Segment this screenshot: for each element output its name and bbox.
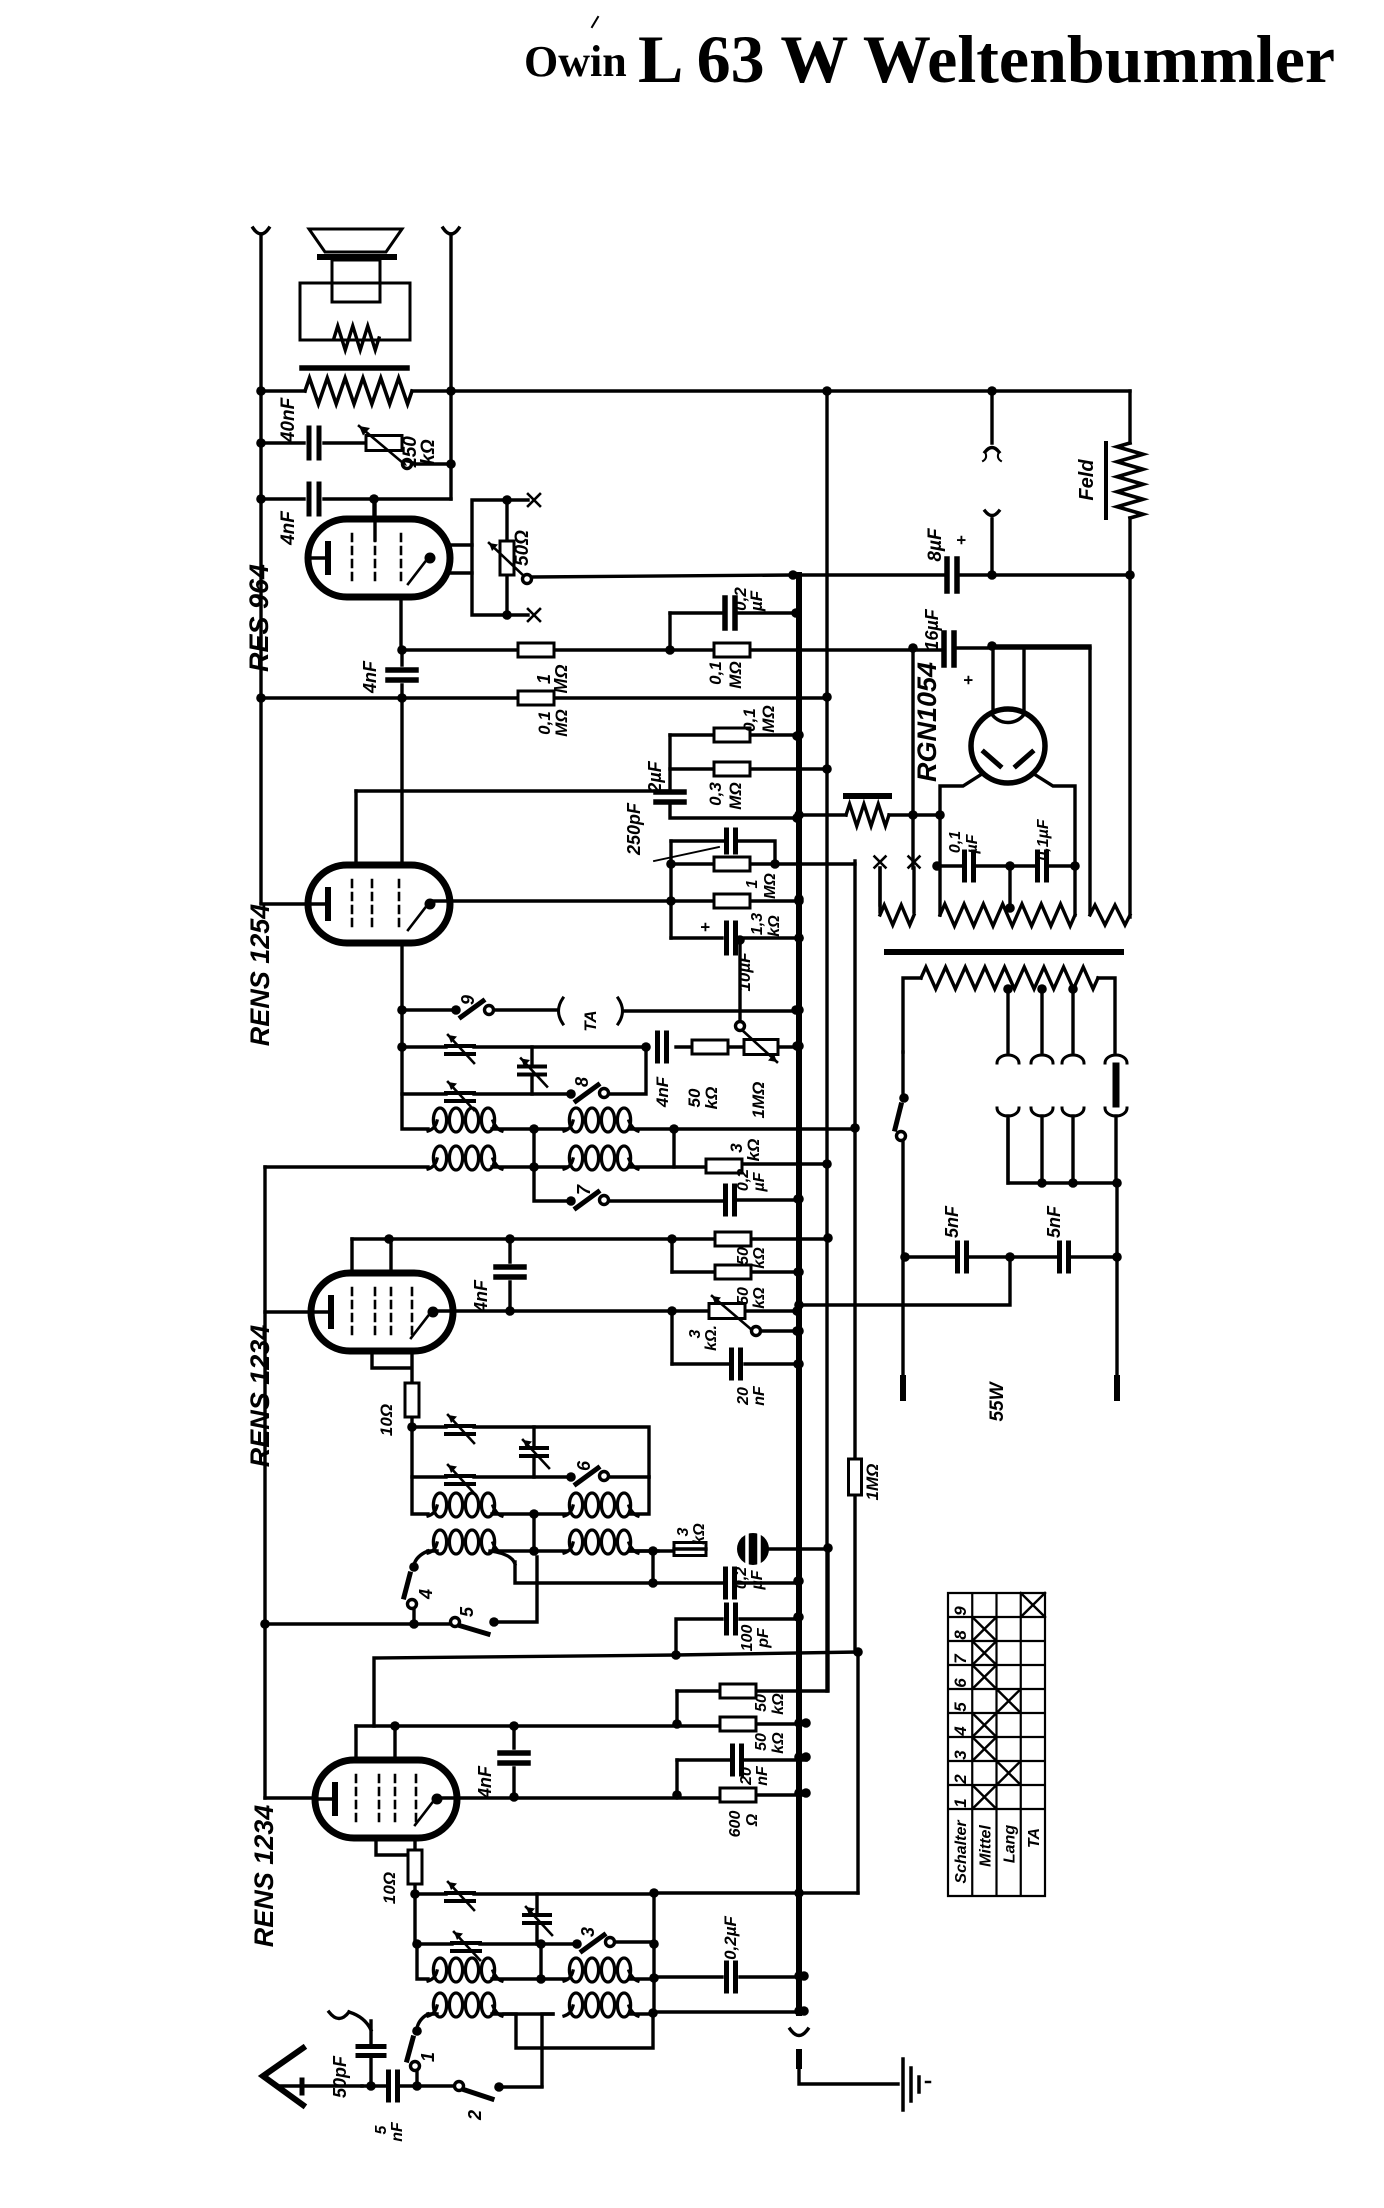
svg-text:5nF: 5nF (942, 1205, 962, 1238)
bracket x670 with 2uF (670, 735, 797, 818)
HV winding lead left with x (878, 868, 881, 912)
tube RENS1234a cathode (315, 1797, 332, 1800)
svg-text:Schalter: Schalter (953, 1820, 970, 1884)
svg-text:0,2: 0,2 (733, 1567, 750, 1589)
switch 5 (451, 1618, 460, 1627)
trimmer stage1 row1 (446, 1893, 474, 1901)
capacitor 0,2uF IF (726, 1186, 735, 1214)
primary winding left small lead (878, 868, 881, 905)
bracket rowA-rowB x674 (672, 1129, 675, 1167)
coil L3b (428, 1543, 437, 1553)
capacitor 250pF (671, 841, 775, 864)
rectifier RGN1054 filament (991, 713, 1025, 722)
svg-text:7: 7 (574, 1184, 594, 1195)
coil L5a (428, 1971, 437, 1981)
svg-text:3: 3 (675, 1527, 692, 1536)
coil L5b (428, 2006, 437, 2016)
resistor 50 kOhm det (692, 1040, 728, 1054)
link coil1b to y2048 (504, 2013, 653, 2048)
tube RENS1254 envelope (308, 865, 450, 943)
padder stage3 (532, 1427, 535, 1477)
svg-text:kΩ: kΩ (691, 1523, 708, 1545)
svg-text:Mittel: Mittel (977, 1825, 994, 1867)
svg-text:3: 3 (687, 1329, 704, 1338)
wire heater bottom y1183 (1008, 1120, 1117, 1257)
svg-text:3: 3 (578, 1927, 598, 1937)
tube RENS1234a anode (432, 1794, 443, 1805)
svg-text:+: + (952, 535, 971, 545)
capacitor 50pF (369, 2021, 372, 2086)
wire coil rowB y1551 (428, 1549, 674, 1552)
svg-text:MΩ: MΩ (762, 873, 779, 899)
capacitor 4nF stage1 (512, 1726, 515, 1797)
resistor 0,1 MOhm (AF grid) (518, 691, 554, 705)
speaker diaphragm bar (320, 254, 394, 260)
svg-text:0,1: 0,1 (740, 708, 759, 732)
trimmer row2 stage2 (446, 1046, 474, 1054)
svg-text:50: 50 (735, 1247, 752, 1265)
svg-text:kΩ: kΩ (751, 1247, 768, 1269)
svg-text:50Ω: 50Ω (512, 530, 533, 566)
switch 1 (417, 2014, 428, 2028)
bracket x677 50k stage1 (675, 1691, 678, 1724)
svg-text:2: 2 (465, 2110, 485, 2121)
capacitor 5nF (362, 2084, 417, 2087)
switch 3 (572, 1939, 582, 1949)
potentiometer 3 kOhm var (709, 1304, 745, 1319)
svg-text:10Ω: 10Ω (377, 1404, 396, 1436)
mains lead left (901, 1052, 904, 1098)
svg-text:TA: TA (1026, 1828, 1043, 1848)
wire 50k row y1691 (677, 1548, 828, 1691)
svg-text:0,2: 0,2 (735, 1169, 752, 1191)
resistor 1 MOhm AVC (849, 1459, 862, 1495)
tube RENS1254 anode (425, 899, 436, 910)
coil L6b (564, 2006, 573, 2016)
oscillator row2 y1094 stage2 (402, 1047, 646, 1094)
svg-text:kΩ: kΩ (766, 915, 783, 937)
tube RENS1234a cathode lead (265, 1796, 315, 1799)
tube RENS1234b bottom leads (372, 1352, 412, 1384)
svg-text:kΩ: kΩ (744, 1139, 763, 1162)
coil L4a (564, 1506, 573, 1516)
svg-text:kΩ: kΩ (702, 1087, 721, 1110)
wire left vertical x265 (263, 1167, 266, 1798)
output choke winding (305, 378, 412, 404)
wire band row y1624 (265, 1622, 450, 1625)
wire coil rowA y1514 (412, 1477, 649, 1514)
coil L3a (428, 1506, 437, 1516)
tube RES964 anode (425, 553, 436, 564)
tube RES964 envelope (308, 519, 450, 597)
resistor 1,3 kOhm (714, 894, 750, 908)
capacitor 5nF a (958, 1243, 967, 1271)
svg-text:50: 50 (753, 1733, 770, 1751)
tube RENS1254 aux top lead (400, 698, 403, 865)
wire coil rowB y2014 (428, 2012, 653, 2015)
wire AVC y1655 (374, 1652, 858, 1726)
switch table frame (948, 1593, 1045, 1896)
svg-text:+: + (959, 675, 978, 685)
wire screen feed y791 (356, 789, 670, 792)
wire 1M/0,1M/16uF row y649 (402, 648, 1090, 650)
antenna symbol (263, 2048, 303, 2105)
heater connectors (997, 1055, 1019, 1063)
svg-text:2µF: 2µF (645, 760, 665, 793)
rectifier RGN1054 anode legs (940, 774, 982, 866)
wire row y2012 to bus (653, 2010, 804, 2013)
svg-text:50: 50 (753, 1694, 770, 1712)
svg-text:4nF: 4nF (471, 1279, 491, 1313)
speaker voice coil (332, 260, 380, 302)
tube RENS1234b grids (352, 1288, 412, 1336)
switch 7 row y1201 (534, 1167, 798, 1201)
tube RENS1234a grid leads top (356, 1726, 395, 1760)
HT vertical x827 (825, 391, 828, 1691)
svg-text:RES 964: RES 964 (244, 564, 274, 672)
wire 20nF row y1364 (672, 1362, 798, 1365)
wire rowB right links (630, 1551, 658, 1583)
wire 0,2uF row y1583 (490, 1551, 798, 1583)
vertical x654 (652, 1894, 655, 2013)
capacitor 100pF (727, 1605, 736, 1633)
resistor 50 kOhm c (720, 1684, 756, 1698)
svg-text:0,1µF: 0,1µF (1035, 818, 1052, 860)
resistor 1 MOhm (518, 643, 554, 657)
wire 1M row y864 (671, 862, 855, 865)
capacitor 5nF b (1060, 1243, 1069, 1271)
svg-text:4nF: 4nF (653, 1076, 672, 1108)
svg-text:µF: µF (751, 1171, 768, 1192)
bracket x672 20nF (670, 1311, 673, 1364)
wire y1305 (799, 1257, 1010, 1305)
wire grid row y1239 (352, 1237, 828, 1240)
svg-text:TA: TA (581, 1010, 600, 1031)
capacitor 16uF (944, 633, 954, 665)
tube RES964 anode stubs (448, 545, 472, 573)
wire anode row y1311 (433, 1309, 797, 1312)
svg-text:1: 1 (418, 2052, 438, 2062)
transformer primary winding left small (880, 905, 914, 925)
svg-text:20: 20 (738, 1767, 755, 1786)
svg-text:MΩ: MΩ (552, 709, 571, 736)
capacitor 8uF (947, 559, 957, 591)
rectifier RGN1054 anodes (984, 752, 1032, 766)
capacitor 10uF (671, 936, 799, 939)
svg-text:1,3: 1,3 (749, 913, 766, 935)
svg-text:RGN1054: RGN1054 (912, 662, 942, 782)
svg-text:0,1: 0,1 (947, 831, 964, 853)
svg-text:1MΩ: 1MΩ (863, 1464, 882, 1501)
tube RENS1254 grids (352, 880, 399, 928)
wire bracket x670 to 1M row (668, 613, 671, 650)
speaker hum-buck resistor (334, 326, 379, 350)
tube RENS1234b anode (428, 1307, 439, 1318)
resistor 0,3 MOhm (714, 762, 750, 776)
bracket x672 50k (670, 1239, 673, 1272)
svg-text:20: 20 (735, 1387, 752, 1406)
ground symbol (901, 2059, 905, 2110)
wire 0,2uF row y1977 (655, 1975, 804, 1978)
wiper feed from 10uF row (738, 940, 741, 1021)
resistor 3 kOhm IF (706, 1159, 742, 1173)
switch 6 (566, 1472, 576, 1482)
svg-text:nF: nF (754, 1765, 771, 1786)
svg-text:nF: nF (389, 2121, 406, 2142)
capacitor 2uF (656, 792, 684, 802)
ground connector arc (790, 2029, 808, 2036)
svg-text:9: 9 (951, 1606, 970, 1616)
svg-text:µF: µF (964, 833, 981, 854)
HV winding lead right with x (913, 648, 914, 912)
tube RENS1234a bottom leads (376, 1839, 415, 1855)
capacitor 20nF stage1 (733, 1746, 742, 1774)
svg-text:250pF: 250pF (624, 802, 644, 856)
transformer secondary winding (903, 978, 1115, 1052)
resistor 10 Ohm stage1 (413, 1851, 416, 1894)
svg-text:10Ω: 10Ω (380, 1872, 399, 1904)
wire 100pF row y1619 (676, 1619, 798, 1655)
svg-text:0,3: 0,3 (706, 782, 725, 806)
svg-text:1: 1 (951, 1798, 970, 1807)
svg-text:kΩ.: kΩ. (703, 1325, 720, 1351)
svg-text:8: 8 (572, 1077, 592, 1087)
padder stage1 (535, 1894, 538, 1944)
wire rail y391 (261, 389, 1130, 392)
svg-text:4nF: 4nF (475, 1765, 495, 1799)
speaker core bar (302, 365, 407, 371)
resistor 600 Ohm (720, 1788, 756, 1802)
svg-text:0,2µF: 0,2µF (721, 1915, 740, 1959)
wire anode row y1797 (437, 1795, 806, 1798)
coupling link x534 stage3 (532, 1514, 535, 1551)
wire anode row y901 (430, 899, 799, 902)
resistor 10 Ohm stage3 (410, 1384, 413, 1427)
tube RES964 bottom lead (399, 596, 402, 650)
svg-text:10µF: 10µF (735, 952, 754, 992)
capacitor 0,2uF stage3 (726, 1569, 735, 1597)
iron core indicator (737, 1533, 769, 1565)
svg-text:5nF: 5nF (1044, 1205, 1064, 1238)
svg-text:pF: pF (755, 1627, 772, 1649)
svg-text:MΩ: MΩ (726, 661, 745, 688)
tube RENS1254 grid top lead (354, 791, 357, 865)
tube RES964 grid top lead (373, 499, 376, 540)
svg-text:Feld: Feld (1076, 459, 1098, 501)
svg-text:Ω: Ω (744, 1813, 761, 1827)
wire volume row y1047 (402, 1010, 797, 1047)
wire row2 y1477 (412, 1427, 649, 1477)
wire grid row y1725 (356, 1724, 806, 1726)
mains lead right (1115, 1257, 1118, 1378)
chassis bus x799 (796, 575, 802, 2013)
wire AVC top y861 (854, 861, 856, 865)
svg-text:100: 100 (739, 1625, 756, 1652)
capacitor 4nF stage3 (508, 1239, 511, 1311)
svg-text:3: 3 (951, 1750, 970, 1760)
wire rail y575 (532, 575, 1130, 577)
trimmer row2b stage2 (446, 1093, 474, 1101)
svg-text:600: 600 (727, 1811, 744, 1838)
wire 0,1M row y735 (670, 733, 797, 736)
svg-text:6: 6 (951, 1678, 970, 1688)
capacitor 20nF stage3 (732, 1350, 741, 1378)
svg-text:5: 5 (457, 1606, 477, 1617)
potentiometer 50 Ohm bracket (472, 500, 528, 615)
tap lead 0,1uF junction (1008, 866, 1011, 908)
wire 20nF row y1760 (677, 1758, 806, 1761)
svg-text:RENS 1234: RENS 1234 (245, 1325, 275, 1468)
potentiometer 150 kOhm (366, 436, 402, 451)
svg-text:RENS 1234: RENS 1234 (249, 1805, 279, 1948)
switch table X marks (1021, 1593, 1045, 1617)
svg-text:4: 4 (416, 1589, 436, 1600)
svg-text:MΩ: MΩ (759, 705, 778, 732)
capacitor 0,1uF b (1038, 852, 1047, 880)
svg-text:8µF: 8µF (925, 527, 946, 562)
svg-text:1: 1 (744, 879, 761, 888)
svg-text:Owin: Owin (524, 37, 627, 86)
mains switch (899, 1093, 909, 1103)
wire 5nF row y1257 (905, 1255, 1117, 1258)
wire 0,1M row y698 (261, 696, 827, 699)
wire TA to bus (625, 1009, 796, 1012)
trimmer stage1 row2 (452, 1943, 480, 1951)
AVC vertical x855 (855, 861, 858, 1893)
svg-text:50pF: 50pF (330, 2055, 350, 2098)
svg-text:16µF: 16µF (922, 608, 942, 650)
wire y1893 (654, 1891, 858, 1894)
secondary taps (1008, 989, 1073, 1052)
speaker magnet frame (300, 283, 410, 340)
link coil2b left x542 (542, 2014, 553, 2086)
wire row1 y1894 (415, 1892, 654, 1895)
resistor 50 kOhm b (715, 1265, 751, 1279)
svg-text:0,1: 0,1 (706, 661, 725, 685)
capacitor 4nF (tone) (261, 497, 451, 500)
transformer primary winding middle (940, 866, 1075, 915)
link x541 stage1 (539, 1944, 542, 1979)
padder stage2 (530, 1047, 533, 1094)
resistor 0,1 MOhm (grid leak) (714, 643, 750, 657)
capacitor 0,2uF antenna (727, 1963, 736, 1991)
tube RENS1254 cathode (308, 902, 325, 905)
wire coil rowB y1167 (265, 1164, 827, 1167)
coil L6a (564, 1971, 573, 1981)
wire left vertical x261 (259, 234, 262, 903)
svg-text:kΩ: kΩ (770, 1732, 787, 1754)
svg-text:MΩ: MΩ (551, 664, 571, 693)
svg-text:8: 8 (951, 1630, 970, 1640)
tube RENS1234b grid leads top (352, 1239, 391, 1273)
rectifier RGN1054 envelope (971, 709, 1045, 783)
tube RENS1234a grids (356, 1775, 416, 1823)
svg-text:L 63 W Weltenbummler: L 63 W Weltenbummler (638, 21, 1335, 97)
capacitor 4nF det (658, 1033, 667, 1061)
svg-text:MΩ: MΩ (726, 782, 745, 809)
speaker terminal cup left (253, 228, 269, 234)
coil L4b (564, 1543, 573, 1553)
svg-text:6: 6 (574, 1460, 594, 1471)
svg-text:nF: nF (751, 1385, 768, 1406)
switch 8 (566, 1089, 576, 1099)
tube RENS1234b envelope (311, 1273, 453, 1351)
trimmer stage3 row1 (446, 1426, 474, 1434)
resistor voltage divider with bar (846, 793, 889, 799)
wire coil rowA y1979 (417, 1944, 655, 1979)
svg-text:RENS 1254: RENS 1254 (245, 904, 275, 1047)
trimmer stage3 row2 (446, 1476, 474, 1484)
wire row1 y1427 (412, 1427, 649, 1477)
tube RENS1234a envelope (315, 1760, 457, 1838)
connector TA (559, 998, 564, 1024)
svg-text:55W: 55W (987, 1380, 1008, 1421)
bracket x677 20nF stage1 (675, 1760, 678, 1795)
coupling link x534 stage2 (532, 1129, 535, 1167)
svg-text:4nF: 4nF (278, 510, 299, 546)
switch 9 (397, 1005, 407, 1015)
junction dots rail y391 (256, 386, 266, 396)
tube RES964 cathode (308, 556, 325, 559)
svg-text:7: 7 (951, 1653, 970, 1664)
svg-text:40nF: 40nF (278, 396, 299, 443)
capacitor 0,2uF (AF coupling) (725, 598, 735, 628)
svg-text:4nF: 4nF (360, 660, 380, 694)
svg-text:+: + (696, 922, 715, 932)
wire 0,2uF row y613 (670, 611, 796, 614)
wire 0,3M row y769 (670, 767, 827, 770)
bracket x671 det (669, 841, 672, 938)
tube RENS1234b cathode (311, 1310, 328, 1313)
svg-text:µF: µF (747, 590, 766, 612)
svg-text:µF: µF (749, 1569, 766, 1590)
dial lamp (1113, 1066, 1120, 1104)
wire 50k row y1272 (672, 1270, 798, 1273)
capacitor 40nF (261, 441, 366, 444)
wire grid RES964 (372, 499, 375, 519)
potentiometer 1 MOhm volume (744, 1040, 778, 1055)
tube RENS1254 cathode lead (261, 902, 308, 905)
resistor 0,1 MOhm (decoupling) (714, 728, 750, 742)
coil L1b (428, 1159, 437, 1169)
wire to ground (799, 2070, 898, 2084)
rectifier RGN1054 filament leads (993, 646, 1024, 713)
resistor 1 MOhm (det load) (714, 857, 750, 871)
resistor 3 kOhm osc (674, 1543, 706, 1556)
switch 2 (422, 2084, 454, 2087)
wire row2 y1944 (415, 1894, 654, 1944)
capacitor 0,1uF a (965, 852, 974, 880)
resistor 50 kOhm d (720, 1717, 756, 1731)
speaker cone (309, 229, 402, 252)
speaker terminal cup right (443, 228, 459, 234)
coil L1a (428, 1121, 437, 1131)
aux antenna connector cup (329, 2012, 349, 2019)
svg-text:Lang: Lang (1002, 1825, 1019, 1863)
wire right vertical x451 (449, 234, 452, 499)
transformer primary winding right small (1089, 646, 1091, 915)
transformer core bar (887, 949, 1121, 955)
field coil resistor Feld (1128, 391, 1131, 443)
coil L2a (564, 1121, 573, 1131)
svg-text:5: 5 (373, 2124, 390, 2134)
tube RES964 grids (352, 534, 401, 582)
svg-text:1MΩ: 1MΩ (749, 1082, 768, 1119)
tube RENS1254 cathode bottom lead (400, 943, 403, 1010)
svg-text:5: 5 (951, 1702, 970, 1712)
coil L2b (564, 1159, 573, 1169)
wire coil rowA y1129 (402, 1094, 855, 1129)
